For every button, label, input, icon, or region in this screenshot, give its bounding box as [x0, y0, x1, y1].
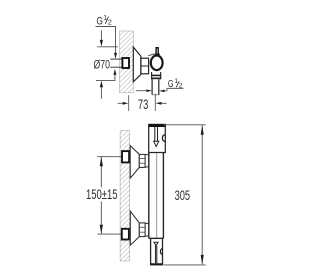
top S-union: connector to bar	[145, 155, 148, 167]
stem / knob on top of body	[155, 48, 160, 55]
bottom S-union: nipple in wall	[122, 229, 129, 240]
top handle (shut-off) outline	[149, 124, 166, 152]
svg-text:305: 305	[175, 188, 191, 203]
leader arrow G1/2 top (down to nipple)	[114, 27, 117, 59]
svg-text:73: 73	[138, 97, 148, 112]
bottom handle side notch (right)	[160, 249, 162, 255]
outlet collar with bands	[151, 72, 161, 79]
top S-union: escutcheon cone	[130, 146, 139, 179]
dimension 73 (wall to outlet axis)	[118, 94, 167, 112]
arrow up at pipe underside (G1/2 size, lower jaw)	[113, 69, 116, 81]
bottom handle cap band	[151, 263, 163, 265]
inlet nipple G1/2 in wall	[122, 58, 129, 68]
top handle cap band	[149, 124, 166, 127]
escutcheon flange Ø70 (trapezoid)	[133, 47, 141, 82]
dimension Ø70	[94, 30, 118, 99]
bottom handle triangle + column	[154, 242, 158, 263]
bottom S-union: supply ext line	[97, 233, 121, 235]
dimension 305	[163, 125, 206, 265]
label G1/2 (top inlet)	[96, 15, 117, 27]
svg-text:G: G	[96, 16, 103, 28]
top handle side notch (right)	[162, 135, 165, 142]
wall (bottom view) hatched strip	[120, 131, 130, 262]
joint line bar bottom	[149, 237, 164, 239]
bottom S-union: connector to bar	[145, 223, 148, 236]
outlet pipe end edge	[152, 94, 159, 96]
diagonal link nut to stem	[148, 54, 154, 56]
top S-union: supply ext line	[97, 156, 122, 158]
bottom S-union: escutcheon cone	[130, 211, 139, 245]
supply pipe in wall	[110, 59, 122, 67]
bottom S-union: nut	[139, 223, 145, 237]
leader arrows to outlet pipe (G1/2)	[136, 88, 167, 92]
svg-text:150±15: 150±15	[86, 187, 118, 202]
svg-text:Ø70: Ø70	[94, 58, 110, 72]
dimension 150±15	[86, 157, 118, 234]
valve body (circle, thermostat cylinder end view)	[151, 56, 163, 71]
outlet pipe (down, G1/2)	[152, 79, 159, 95]
union nut (two squares)	[141, 58, 149, 74]
svg-text:2: 2	[108, 20, 112, 27]
top handle column + triangle marker	[154, 127, 159, 147]
label G1/2 (outlet)	[167, 78, 184, 90]
wall (top view) hatched strip	[120, 31, 134, 93]
bottom handle (temperature) outline	[151, 238, 163, 264]
top S-union: nipple in wall	[122, 151, 129, 162]
top S-union: nut	[139, 154, 145, 167]
thermostat bar: main tube	[149, 153, 164, 239]
